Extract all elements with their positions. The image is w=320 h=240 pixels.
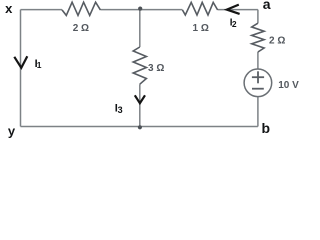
- svg-text:a: a: [263, 0, 271, 12]
- svg-text:2 Ω: 2 Ω: [73, 23, 89, 34]
- svg-text:1: 1: [37, 60, 42, 70]
- svg-text:2 Ω: 2 Ω: [269, 36, 285, 47]
- svg-text:x: x: [5, 1, 13, 16]
- svg-text:y: y: [8, 124, 16, 139]
- svg-text:10 V: 10 V: [278, 80, 299, 91]
- svg-text:3 Ω: 3 Ω: [148, 63, 164, 74]
- svg-text:2: 2: [232, 19, 237, 29]
- svg-text:b: b: [262, 120, 271, 136]
- svg-text:3: 3: [118, 105, 123, 115]
- svg-text:1 Ω: 1 Ω: [193, 23, 209, 34]
